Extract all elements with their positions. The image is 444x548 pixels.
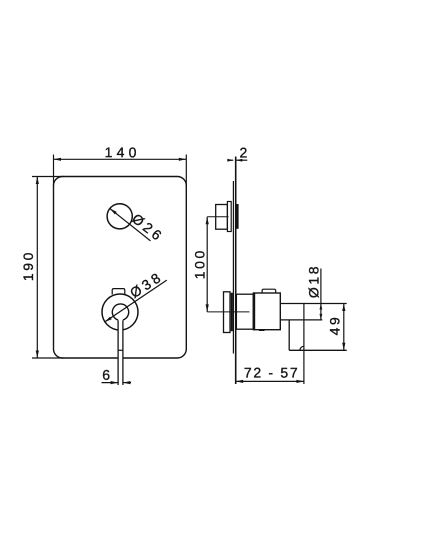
label 140 <box>105 144 141 160</box>
svg-text:140: 140 <box>105 144 141 160</box>
lever joint tick <box>118 349 124 351</box>
front plate 140x190 rounded rectangle <box>54 177 187 359</box>
body top tab <box>262 289 276 293</box>
dimension 140 extension left <box>53 155 55 187</box>
side lever disc flange bar <box>231 293 233 332</box>
side view plate front edge <box>232 181 234 354</box>
svg-text:2: 2 <box>239 144 250 160</box>
outlet drop bottom-right fillet <box>300 346 304 350</box>
side knob flange <box>227 202 231 232</box>
label 49 <box>326 315 342 336</box>
top knob circle Ø26 <box>107 204 132 229</box>
bottom outer circle Ø38 <box>102 294 138 330</box>
label 6 <box>102 367 113 383</box>
label 2 <box>239 144 250 160</box>
outlet drop left edge <box>288 320 290 350</box>
valve body thick left edge <box>253 293 255 330</box>
dimension line 190 <box>36 177 39 359</box>
label 72-57 <box>244 364 300 380</box>
outlet arm top line (extends as extension for 49) <box>280 303 346 305</box>
lever white mask over circles <box>118 312 123 385</box>
outlet drop bottom line (extends as extension for 49) <box>289 349 347 351</box>
dimension line 140 <box>54 158 187 161</box>
svg-text:Ø18: Ø18 <box>306 264 322 298</box>
body bottom mark <box>259 329 265 331</box>
knob centerline <box>207 216 228 218</box>
lever handle left edge <box>117 320 119 385</box>
svg-text:49: 49 <box>326 315 342 336</box>
leader line Ø26 <box>110 209 151 241</box>
valve neck behind plate <box>236 294 253 329</box>
dimension line 100 <box>206 217 209 312</box>
svg-text:6: 6 <box>102 367 113 383</box>
outlet drop right edge (extends down as extension for 72-57) <box>303 304 305 385</box>
dimension line 72-57 <box>236 380 304 383</box>
valve body <box>253 293 280 330</box>
side view wall line (plate rear edge, also extension for dims 2 and 72-57) <box>235 157 237 385</box>
label Ø26 <box>129 210 167 245</box>
leader line Ø38 <box>105 280 167 322</box>
dimension 140 extension right <box>185 155 187 187</box>
svg-text:72 - 57: 72 - 57 <box>244 364 300 380</box>
bottom inner keyhole arc <box>112 304 128 320</box>
side knob stem bar behind plate <box>236 204 238 229</box>
dimension 190 extension top <box>32 176 64 178</box>
label Ø38 <box>127 268 166 301</box>
dimension line Ø18 <box>320 269 323 320</box>
svg-text:100: 100 <box>192 248 208 279</box>
side lever disc <box>224 292 231 333</box>
svg-text:Ø38: Ø38 <box>127 268 166 301</box>
side knob cap <box>216 205 228 230</box>
tab on top of bottom circle <box>112 289 125 295</box>
label Ø18 <box>306 264 322 298</box>
label 100 <box>192 248 208 279</box>
dimension 190 extension bottom <box>32 357 64 359</box>
dimension line 2 <box>227 159 247 162</box>
dimension line 6 <box>102 381 132 384</box>
lever handle right edge <box>122 320 124 385</box>
label 190 <box>20 250 36 281</box>
outlet arm bottom line (extends to Ø18 dim) <box>280 319 322 321</box>
dimension line 49 <box>342 304 345 351</box>
lower centerline <box>207 311 249 313</box>
svg-text:190: 190 <box>20 250 36 281</box>
